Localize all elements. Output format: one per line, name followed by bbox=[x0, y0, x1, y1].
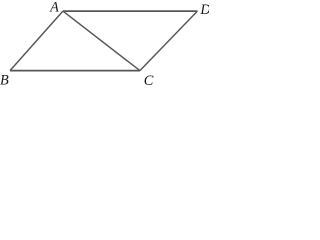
svg-text:B: B bbox=[0, 73, 9, 88]
svg-text:D: D bbox=[199, 2, 209, 18]
diagonal AC bbox=[63, 11, 140, 71]
side AB bbox=[10, 11, 63, 71]
side AD bbox=[63, 10, 198, 12]
side DC bbox=[140, 11, 198, 71]
side BC bbox=[10, 70, 140, 72]
svg-text:C: C bbox=[144, 73, 154, 88]
svg-text:A: A bbox=[49, 0, 59, 15]
